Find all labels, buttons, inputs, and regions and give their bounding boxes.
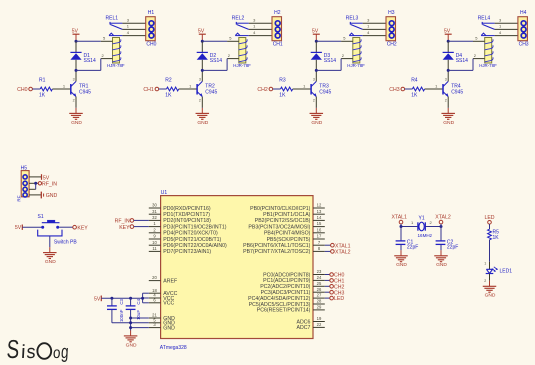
- port CH3 (input to relay block 4): [389, 87, 404, 93]
- svg-text:5V: 5V: [15, 225, 22, 231]
- relay REL3 contact (SPDT): [346, 16, 363, 36]
- wire TR3 emitter to ground: [315, 107, 317, 109]
- node junction XTAL1: [400, 225, 403, 228]
- svg-text:CH1: CH1: [143, 87, 153, 93]
- svg-text:PB1(PCINT1/OC1A): PB1(PCINT1/OC1A): [263, 212, 311, 218]
- svg-text:13: 13: [317, 209, 322, 214]
- svg-text:XTAL1: XTAL1: [391, 215, 407, 221]
- diode D1 SS14: [70, 41, 96, 70]
- svg-text:C945: C945: [79, 90, 91, 96]
- relay REL2 coil HJR-78F: [233, 38, 251, 69]
- svg-text:GND: GND: [396, 262, 407, 268]
- wire R4 to TR4 base, pin 1: [425, 83, 443, 89]
- svg-text:ATmega328: ATmega328: [160, 345, 187, 351]
- node junction collector/diode/coil (block 3): [315, 69, 318, 72]
- svg-text:24: 24: [317, 275, 322, 280]
- U1 pin 17 PB5(SCK/PCINT5): [267, 234, 325, 243]
- U1 pin 32 PD2(INT0/PCINT18): [149, 215, 211, 224]
- wire TR2 emitter to ground: [201, 107, 203, 109]
- svg-text:26: 26: [317, 287, 322, 292]
- relay REL3 contact pins 3,1,4 wires to H3: [363, 17, 386, 35]
- wire CH1 to R2: [159, 88, 167, 90]
- diode D3 SS14: [311, 41, 337, 70]
- connector H1 (CH0 output header): [146, 10, 157, 48]
- wire H5 pin 4 to GND: [29, 194, 41, 196]
- svg-text:R1: R1: [39, 78, 46, 84]
- svg-text:2: 2: [73, 99, 75, 103]
- svg-text:PD2(INT0/PCINT18): PD2(INT0/PCINT18): [163, 218, 211, 224]
- node junction 5V rail (block 3): [315, 40, 318, 43]
- svg-text:CH0: CH0: [146, 42, 156, 48]
- resistor R4 1K: [411, 78, 424, 99]
- svg-text:19: 19: [317, 316, 322, 321]
- svg-text:R4: R4: [411, 78, 418, 84]
- svg-text:GND: GND: [197, 120, 208, 126]
- svg-text:100nF: 100nF: [119, 309, 124, 322]
- power 5V (switch): [15, 225, 22, 232]
- wire XTAL2 node down: [440, 224, 442, 241]
- port XTAL2 (from U1 PB7): [325, 250, 351, 256]
- wire H5 pin 2 to RF_IN: [29, 182, 38, 184]
- relay REL2 contact pins 3,1,4 wires to H2: [249, 17, 272, 35]
- svg-text:CH3: CH3: [389, 87, 399, 93]
- node junction collector/diode/coil (block 1): [75, 69, 78, 72]
- svg-text:C945: C945: [319, 90, 331, 96]
- svg-text:CH2: CH2: [257, 87, 267, 93]
- svg-text:GND: GND: [46, 193, 58, 199]
- U1 pin 14 PB2(PCINT2/SS/OC1B): [255, 215, 325, 224]
- node junction 5V rail (block 2): [201, 40, 204, 43]
- capacitor C4 10uF: [126, 298, 141, 330]
- U1 pin 30 PD0(RXD/PCINT16): [149, 203, 211, 212]
- svg-text:PD7(PCINT23/AIN1): PD7(PCINT23/AIN1): [163, 249, 211, 255]
- wire S1 to KEY: [59, 226, 73, 228]
- port CH1 (from U1 PC1): [325, 279, 345, 285]
- wire R2 to TR2 base, pin 1: [179, 83, 197, 89]
- wire C3 to ground net: [112, 322, 131, 324]
- svg-text:1K: 1K: [39, 93, 46, 99]
- svg-text:S1: S1: [38, 214, 44, 220]
- svg-text:R2: R2: [165, 78, 172, 84]
- svg-text:C3: C3: [119, 298, 124, 304]
- wire TR1 emitter to ground: [75, 107, 77, 109]
- capacitor C2 22pF: [436, 239, 459, 250]
- svg-text:R3: R3: [279, 78, 286, 84]
- relay REL2 coil pin 5 wire to 5V rail: [202, 36, 239, 42]
- power 5V (block 1): [72, 29, 80, 42]
- wire 5V supply rail: [101, 293, 149, 303]
- svg-text:3: 3: [199, 77, 201, 81]
- ground GND (U1 supply): [124, 330, 138, 348]
- svg-text:28: 28: [317, 299, 322, 304]
- transistor TR2 C945: [197, 70, 217, 107]
- svg-text:PB2(PCINT2/SS/OC1B): PB2(PCINT2/SS/OC1B): [255, 218, 311, 224]
- node junction XTAL2: [440, 225, 443, 228]
- U1 pin 19 ADC6: [297, 316, 325, 325]
- svg-text:GND: GND: [126, 342, 137, 348]
- svg-text:SS14: SS14: [84, 58, 96, 64]
- svg-text:GND: GND: [443, 120, 454, 126]
- svg-text:CH3: CH3: [519, 42, 529, 48]
- svg-text:CH0: CH0: [17, 87, 27, 93]
- U1 pin 24 PC1(ADC1/PCINT9): [263, 275, 325, 284]
- relay REL1 coil pin 5 wire to 5V rail: [76, 36, 113, 42]
- transistor TR4 C945: [443, 70, 463, 107]
- svg-text:U1: U1: [161, 190, 168, 196]
- resistor R5 1K: [488, 229, 500, 241]
- port CH2 (from U1 PC2): [325, 284, 345, 290]
- wire R5 to LED1: [484, 240, 489, 269]
- relay REL2 contact (SPDT): [232, 16, 249, 36]
- svg-text:29: 29: [317, 305, 322, 310]
- svg-text:23: 23: [317, 269, 322, 274]
- wire TR4 emitter to ground: [447, 107, 449, 109]
- svg-text:31: 31: [152, 209, 157, 214]
- svg-text:Y1: Y1: [419, 216, 425, 222]
- svg-text:11: 11: [152, 246, 157, 251]
- power 5V (block 3): [312, 29, 320, 42]
- svg-text:27: 27: [317, 293, 322, 298]
- svg-text:PB3(PCINT3/OC2A/MOSI): PB3(PCINT3/OC2A/MOSI): [248, 224, 310, 230]
- svg-text:PD6(PCINT22/OC0A/AIN0): PD6(PCINT22/OC0A/AIN0): [163, 243, 227, 249]
- svg-text:H4: H4: [520, 10, 527, 16]
- connector H4 (CH3 output header): [518, 10, 529, 48]
- op-amp U1 ATmega328 MCU body: [160, 190, 313, 351]
- U1 pin 21 GND: [149, 313, 175, 322]
- ground GND (LED1): [483, 281, 497, 299]
- U1 pin 15 PB3(PCINT3/OC2A/MOSI): [248, 221, 324, 230]
- wire RF_IN to PD2: [134, 219, 149, 221]
- U1 pin 22 ADC7: [297, 322, 325, 331]
- U1 pin 20 AREF: [149, 275, 177, 284]
- svg-text:16MHz: 16MHz: [418, 233, 433, 238]
- node junction collector/diode/coil (block 2): [201, 69, 204, 72]
- relay REL1 contact (SPDT): [106, 16, 123, 36]
- resistor R2 1K: [165, 78, 178, 99]
- node junction collector/diode/coil (block 4): [447, 69, 450, 72]
- capacitor C3 100nF: [107, 298, 124, 323]
- U1 pin 26 PC3(ADC3/PCINT11): [261, 287, 325, 296]
- svg-text:22pF: 22pF: [407, 245, 418, 251]
- LED LED1: [484, 267, 512, 283]
- svg-text:Switch PB: Switch PB: [54, 240, 77, 246]
- diode D4 SS14: [443, 41, 469, 70]
- power 5V (block 4): [444, 29, 452, 42]
- svg-text:GND: GND: [71, 120, 82, 126]
- U1 pin 6 VCC: [149, 297, 175, 306]
- port CH0 (from U1 PC0): [325, 273, 345, 279]
- svg-text:2: 2: [313, 99, 315, 103]
- svg-text:S: S: [6, 334, 20, 364]
- port LED (from U1 PC4): [325, 296, 345, 302]
- svg-text:HJR-78F: HJR-78F: [347, 63, 365, 68]
- svg-text:CH2: CH2: [387, 42, 397, 48]
- power GND bar (H5): [41, 192, 57, 199]
- wire CH0 to R1: [32, 88, 40, 90]
- relay REL2 coil pin 2 wire to collector: [202, 53, 239, 70]
- wire XTAL1 node: [401, 224, 417, 241]
- resistor R1 1K: [39, 78, 52, 99]
- U1 pin 4 VCC: [149, 293, 175, 302]
- svg-text:KEY: KEY: [119, 225, 130, 231]
- svg-text:22pF: 22pF: [447, 245, 458, 251]
- relay REL4 coil pin 5 wire to 5V rail: [448, 36, 485, 42]
- svg-text:SS14: SS14: [456, 58, 468, 64]
- svg-text:REL3: REL3: [346, 16, 359, 22]
- ground GND (C1): [394, 250, 408, 268]
- relay REL3 coil HJR-78F: [347, 38, 365, 69]
- svg-text:REL4: REL4: [478, 16, 491, 22]
- wires U1 GND pins to ground net: [131, 318, 149, 328]
- U1 pin 27 PC4(ADC4/SDA/PCINT12): [248, 293, 325, 302]
- port CH2 (input to relay block 3): [257, 87, 272, 93]
- power 5V (U1 supply): [94, 296, 101, 303]
- svg-text:25: 25: [317, 281, 322, 286]
- ground GND (switch): [43, 247, 57, 265]
- svg-text:PB6(PCINT6/XTAL1/TOSC1): PB6(PCINT6/XTAL1/TOSC1): [243, 243, 311, 249]
- svg-text:32: 32: [152, 215, 157, 220]
- svg-text:2: 2: [445, 99, 447, 103]
- relay REL1 coil HJR-78F: [107, 38, 125, 69]
- svg-text:2: 2: [199, 99, 201, 103]
- svg-text:H3: H3: [388, 10, 395, 16]
- wire Y1 to XTAL2 node: [425, 226, 441, 228]
- svg-text:1: 1: [484, 262, 486, 266]
- ground GND (block 1): [69, 108, 83, 126]
- port LED (indicator): [484, 215, 494, 224]
- svg-text:22: 22: [317, 322, 322, 327]
- svg-text:PD5(PCINT21/OC0B/T1): PD5(PCINT21/OC0B/T1): [163, 237, 221, 243]
- U1 pin 25 PC2(ADC2/PCINT10): [260, 281, 325, 290]
- svg-text:17: 17: [317, 234, 322, 239]
- svg-text:GND: GND: [485, 293, 496, 299]
- port RF_IN (to U1 PD2): [115, 219, 134, 225]
- relay REL4 contact pins 3,1,4 wires to H4: [495, 17, 518, 35]
- svg-text:3: 3: [313, 77, 315, 81]
- U1 pin 23 PC0(ADC0/PCINT8): [263, 269, 325, 278]
- node junction 5V rail (block 4): [447, 40, 450, 43]
- svg-text:14: 14: [317, 215, 322, 220]
- svg-text:CH1: CH1: [273, 42, 283, 48]
- relay REL3 coil pin 2 wire to collector: [316, 53, 353, 70]
- svg-text:XTAL1: XTAL1: [335, 243, 351, 249]
- wire CH3 to R4: [405, 88, 413, 90]
- wire H5 pin 3 join: [29, 183, 36, 189]
- svg-text:PC6(RESET/PCINT14): PC6(RESET/PCINT14): [257, 308, 311, 314]
- node junction H5 pins 2-3: [34, 182, 37, 185]
- U1 pin 12 PB0(PCINT0/CLKO/ICP1): [250, 203, 325, 212]
- svg-text:RF: RF: [16, 195, 21, 201]
- ground GND (C2): [434, 250, 448, 268]
- U1 pin 31 PD1(TXD/PCINT17): [149, 209, 210, 218]
- connector H5 (RF module header): [16, 165, 29, 201]
- U1 pin 10 PD6(PCINT22/OC0A/AIN0): [149, 240, 227, 249]
- svg-text:12: 12: [317, 203, 322, 208]
- relay REL4 coil HJR-78F: [479, 38, 497, 69]
- svg-text:30: 30: [152, 203, 157, 208]
- power 5V (block 2): [198, 29, 206, 42]
- capacitor C1 22pF: [396, 239, 419, 250]
- svg-text:PB4(PCINT4/MISO): PB4(PCINT4/MISO): [264, 231, 311, 237]
- port KEY: [73, 225, 89, 231]
- svg-text:PD0(RXD/PCINT16): PD0(RXD/PCINT16): [163, 206, 211, 212]
- U1 pin 2 PD4(PCINT20/XCK/T0): [149, 227, 218, 236]
- svg-text:RF_IN: RF_IN: [115, 219, 130, 225]
- svg-text:5V: 5V: [94, 296, 101, 302]
- wire S1 to ground: [49, 236, 51, 247]
- Sisoog logo: [6, 334, 69, 364]
- U1 pin 9 PD5(PCINT21/OC0B/T1): [149, 234, 222, 243]
- transistor TR3 C945: [311, 70, 331, 107]
- connector H2 (CH1 output header): [272, 10, 283, 48]
- svg-text:16: 16: [317, 227, 322, 232]
- U1 pin 28 PC5(ADC5/SCL/PCINT13): [249, 299, 325, 308]
- svg-text:3: 3: [445, 77, 447, 81]
- svg-text:1K: 1K: [279, 93, 286, 99]
- relay REL3 coil pin 5 wire to 5V rail: [316, 36, 353, 42]
- port CH3 (from U1 PC3): [325, 290, 345, 296]
- svg-text:g: g: [60, 342, 69, 363]
- svg-text:LED1: LED1: [500, 269, 513, 275]
- svg-text:HJR-78F: HJR-78F: [479, 63, 497, 68]
- svg-text:3: 3: [73, 77, 75, 81]
- connector H3 (CH2 output header): [386, 10, 397, 48]
- ground GND (block 3): [310, 108, 324, 126]
- svg-text:20: 20: [152, 275, 157, 280]
- crystal Y1 16MHz: [411, 216, 433, 238]
- svg-text:2: 2: [484, 279, 486, 283]
- U1 pin 16 PB4(PCINT4/MISO): [264, 227, 325, 236]
- svg-text:REL2: REL2: [232, 16, 245, 22]
- wire R1 to TR1 base, pin 1: [52, 83, 70, 89]
- U1 pin 7 PB6(PCINT6/XTAL1/TOSC1): [243, 240, 325, 249]
- svg-text:1K: 1K: [411, 93, 418, 99]
- svg-text:H5: H5: [21, 165, 28, 171]
- svg-text:C945: C945: [451, 90, 463, 96]
- wire 5V to S1: [22, 226, 42, 228]
- svg-text:REL1: REL1: [106, 16, 119, 22]
- relay REL4 coil pin 2 wire to collector: [448, 53, 485, 70]
- svg-text:15: 15: [317, 221, 322, 226]
- svg-text:VCC: VCC: [163, 301, 174, 307]
- svg-text:H1: H1: [148, 10, 155, 16]
- svg-text:C945: C945: [205, 90, 217, 96]
- svg-text:PD1(TXD/PCINT17): PD1(TXD/PCINT17): [163, 212, 210, 218]
- svg-text:GND: GND: [311, 120, 322, 126]
- svg-text:XTAL2: XTAL2: [335, 250, 351, 256]
- relay REL1 coil pin 2 wire to collector: [76, 53, 113, 70]
- relay REL1 contact pins 3,1,4 wires to H1: [122, 17, 145, 35]
- svg-text:HJR-78F: HJR-78F: [233, 63, 251, 68]
- svg-text:GND: GND: [163, 325, 175, 331]
- svg-text:AREF: AREF: [163, 278, 177, 284]
- wire LED port to R5: [489, 224, 491, 229]
- svg-text:SS14: SS14: [210, 58, 222, 64]
- svg-text:XTAL2: XTAL2: [435, 215, 451, 221]
- port XTAL1 (crystal): [391, 215, 407, 224]
- U1 pin 13 PB1(PCINT1/OC1A): [263, 209, 325, 218]
- port RF_IN: [38, 181, 57, 187]
- svg-text:GND: GND: [436, 262, 447, 268]
- svg-text:PB0(PCINT0/CLKO/ICP1): PB0(PCINT0/CLKO/ICP1): [250, 206, 311, 212]
- relay REL4 contact (SPDT): [478, 16, 495, 36]
- svg-text:GND: GND: [45, 259, 56, 265]
- wire CH2 to R3: [273, 88, 281, 90]
- svg-text:PD4(PCINT20/XCK/T0): PD4(PCINT20/XCK/T0): [163, 231, 218, 237]
- diode D2 SS14: [197, 41, 223, 70]
- U1 pin 1 PD3(PCINT19/OC2B/INT1): [149, 221, 227, 230]
- port CH0 (input to relay block 1): [17, 87, 32, 93]
- port KEY (to U1 PD3): [119, 225, 133, 231]
- switch S1 Switch PB: [38, 214, 78, 245]
- U1 pin 18 AVCC: [149, 288, 178, 297]
- svg-text:LED: LED: [334, 296, 344, 302]
- transistor TR1 C945: [71, 70, 91, 107]
- svg-text:1K: 1K: [493, 235, 500, 241]
- resistor R3 1K: [279, 78, 292, 99]
- wire H5 pin 1 to 5V: [29, 176, 41, 178]
- port XTAL1 (from U1 PB6): [325, 243, 351, 249]
- svg-text:ADC7: ADC7: [297, 325, 311, 331]
- ground GND (block 4): [441, 108, 455, 126]
- svg-text:SS14: SS14: [324, 58, 336, 64]
- power 5V (H5): [42, 174, 50, 181]
- U1 pin 5 GND: [149, 317, 175, 326]
- svg-text:PB5(SCK/PCINT5): PB5(SCK/PCINT5): [267, 237, 311, 243]
- svg-text:C4: C4: [136, 298, 141, 304]
- node junction 5V rail (block 1): [75, 40, 78, 43]
- svg-text:PB7(PCINT7/XTAL2/TOSC2): PB7(PCINT7/XTAL2/TOSC2): [243, 249, 311, 255]
- port CH1 (input to relay block 2): [143, 87, 158, 93]
- node junctions ground net: [129, 317, 132, 330]
- svg-text:H2: H2: [274, 10, 281, 16]
- svg-text:10: 10: [152, 240, 157, 245]
- U1 pin 11 PD7(PCINT23/AIN1): [149, 246, 212, 255]
- U1 pin 29 PC6(RESET/PCINT14): [257, 305, 325, 314]
- svg-text:KEY: KEY: [77, 225, 88, 231]
- wire KEY to PD3: [134, 226, 149, 228]
- svg-text:1K: 1K: [165, 93, 172, 99]
- wire R3 to TR3 base, pin 1: [293, 83, 311, 89]
- ground GND (block 2): [196, 108, 210, 126]
- svg-text:PD3(PCINT19/OC2B/INT1): PD3(PCINT19/OC2B/INT1): [163, 224, 226, 230]
- svg-text:s: s: [26, 342, 36, 363]
- U1 pin 8 PB7(PCINT7/XTAL2/TOSC2): [243, 246, 325, 255]
- port XTAL2 (crystal): [435, 215, 451, 224]
- svg-text:RF_IN: RF_IN: [42, 181, 57, 187]
- U1 pin 3 GND: [149, 322, 175, 331]
- node junctions on 5V rail: [110, 297, 144, 300]
- svg-text:HJR-78F: HJR-78F: [107, 63, 125, 68]
